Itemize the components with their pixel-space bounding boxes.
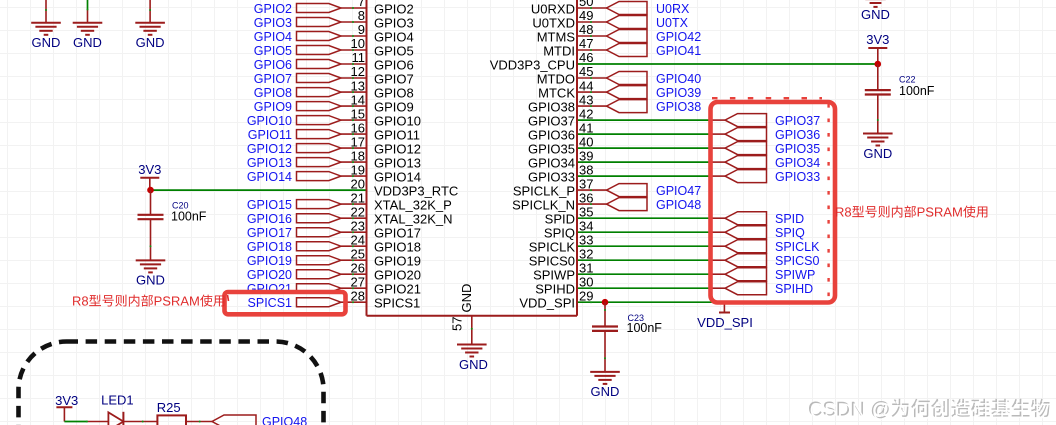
svg-text:100nF: 100nF [171,210,207,224]
svg-text:U0RX: U0RX [656,2,690,16]
svg-text:9: 9 [358,22,365,37]
svg-text:46: 46 [579,50,593,65]
svg-text:SPICS1: SPICS1 [248,296,293,310]
svg-text:3V3: 3V3 [138,162,161,177]
svg-text:SPIWP: SPIWP [533,268,575,283]
svg-text:29: 29 [579,288,593,303]
svg-text:20: 20 [351,176,365,191]
svg-text:SPICLK: SPICLK [529,240,576,255]
svg-text:GPIO36: GPIO36 [528,128,575,143]
svg-text:27: 27 [351,274,365,289]
svg-text:17: 17 [351,134,365,149]
svg-text:GPIO6: GPIO6 [254,58,292,72]
svg-text:GPIO3: GPIO3 [374,16,414,31]
svg-text:23: 23 [351,218,365,233]
svg-text:VDD3P3_CPU: VDD3P3_CPU [490,58,575,73]
svg-text:SPICLK: SPICLK [775,240,820,254]
svg-text:47: 47 [579,36,593,51]
svg-text:GPIO38: GPIO38 [528,100,575,115]
svg-text:GPIO2: GPIO2 [254,2,292,16]
svg-text:GPIO18: GPIO18 [247,240,292,254]
svg-text:GPIO37: GPIO37 [528,114,575,129]
svg-text:SPICS1: SPICS1 [374,296,420,311]
svg-text:GPIO19: GPIO19 [374,254,421,269]
svg-text:GPIO12: GPIO12 [247,142,292,156]
svg-text:GND: GND [136,273,165,288]
svg-text:100nF: 100nF [899,84,935,98]
svg-text:U0RXD: U0RXD [531,2,575,17]
svg-text:GPIO14: GPIO14 [374,170,421,185]
svg-text:GND: GND [459,284,474,313]
svg-text:100nF: 100nF [627,321,663,335]
svg-text:GPIO18: GPIO18 [374,240,421,255]
svg-text:GPIO14: GPIO14 [247,170,292,184]
svg-text:45: 45 [579,64,593,79]
svg-text:SPICS0: SPICS0 [775,254,820,268]
svg-text:GND: GND [32,35,61,50]
svg-text:GPIO8: GPIO8 [374,86,414,101]
svg-text:MTCK: MTCK [538,86,575,101]
svg-text:GPIO21: GPIO21 [374,282,421,297]
svg-text:GPIO47: GPIO47 [656,184,701,198]
svg-text:44: 44 [579,78,593,93]
svg-text:24: 24 [351,232,365,247]
svg-text:GPIO17: GPIO17 [247,226,292,240]
svg-text:33: 33 [579,232,593,247]
svg-text:GPIO33: GPIO33 [775,170,820,184]
svg-text:GPIO34: GPIO34 [528,156,575,171]
svg-text:GPIO10: GPIO10 [247,114,292,128]
svg-text:3V3: 3V3 [866,32,889,47]
svg-text:XTAL_32K_P: XTAL_32K_P [374,198,452,213]
svg-text:43: 43 [579,92,593,107]
svg-text:GPIO17: GPIO17 [374,226,421,241]
svg-text:30: 30 [579,274,593,289]
svg-text:19: 19 [351,162,365,177]
svg-text:GPIO2: GPIO2 [374,2,414,17]
svg-text:U0TXD: U0TXD [532,16,575,31]
svg-text:GPIO15: GPIO15 [247,198,292,212]
svg-text:16: 16 [351,120,365,135]
svg-text:C22: C22 [899,75,916,85]
svg-text:VDD3P3_RTC: VDD3P3_RTC [374,184,458,199]
svg-text:14: 14 [351,92,365,107]
svg-text:GPIO7: GPIO7 [374,72,414,87]
svg-text:GPIO42: GPIO42 [656,30,701,44]
svg-text:GND: GND [861,7,890,22]
svg-text:GPIO11: GPIO11 [374,128,420,143]
svg-text:GPIO19: GPIO19 [247,254,292,268]
svg-text:15: 15 [351,106,365,121]
svg-text:GPIO8: GPIO8 [254,86,292,100]
svg-text:GND: GND [73,35,102,50]
svg-text:SPID: SPID [775,212,804,226]
svg-text:42: 42 [579,106,593,121]
svg-text:39: 39 [579,148,593,163]
svg-text:GPIO9: GPIO9 [254,100,292,114]
svg-text:21: 21 [351,190,365,205]
svg-text:GPIO11: GPIO11 [248,128,292,142]
svg-text:GND: GND [591,384,620,399]
svg-text:SPICLK_P: SPICLK_P [513,184,575,199]
svg-text:SPIHD: SPIHD [775,282,813,296]
svg-text:GPIO20: GPIO20 [374,268,421,283]
svg-text:GPIO6: GPIO6 [374,58,414,73]
svg-text:36: 36 [579,190,593,205]
svg-text:MTDI: MTDI [543,44,575,59]
svg-text:GPIO40: GPIO40 [656,72,701,86]
svg-text:SPICLK_N: SPICLK_N [512,198,575,213]
svg-text:13: 13 [351,78,365,93]
svg-text:LED1: LED1 [101,393,134,408]
svg-text:GPIO16: GPIO16 [247,212,292,226]
svg-text:SPIQ: SPIQ [775,226,805,240]
svg-text:SPIQ: SPIQ [544,226,575,241]
svg-text:GPIO13: GPIO13 [374,156,421,171]
svg-text:R25: R25 [157,400,181,415]
svg-text:41: 41 [579,120,593,135]
svg-text:32: 32 [579,246,593,261]
svg-text:GPIO35: GPIO35 [775,142,820,156]
svg-text:U0TX: U0TX [656,16,689,30]
svg-text:GPIO41: GPIO41 [656,44,701,58]
svg-text:22: 22 [351,204,365,219]
svg-text:11: 11 [352,50,366,65]
svg-text:37: 37 [579,176,593,191]
svg-text:GPIO3: GPIO3 [254,16,292,30]
svg-text:SPICS0: SPICS0 [529,254,575,269]
svg-text:GND: GND [136,35,165,50]
svg-text:GPIO39: GPIO39 [656,86,701,100]
svg-text:GPIO37: GPIO37 [775,114,820,128]
svg-text:26: 26 [351,260,365,275]
svg-text:GPIO35: GPIO35 [528,142,575,157]
svg-text:GPIO13: GPIO13 [247,156,292,170]
svg-text:GPIO20: GPIO20 [247,268,292,282]
svg-text:VDD_SPI: VDD_SPI [519,296,575,311]
svg-text:SPIWP: SPIWP [775,268,815,282]
svg-text:48: 48 [579,22,593,37]
svg-text:49: 49 [579,8,593,23]
svg-text:38: 38 [579,162,593,177]
svg-text:GPIO10: GPIO10 [374,114,421,129]
svg-text:GPIO34: GPIO34 [775,156,820,170]
svg-text:35: 35 [579,204,593,219]
svg-text:SPIHD: SPIHD [535,282,575,297]
svg-text:3V3: 3V3 [55,393,78,408]
svg-text:GPIO12: GPIO12 [374,142,421,157]
svg-text:GPIO48: GPIO48 [656,198,701,212]
svg-text:GND: GND [863,146,892,161]
svg-text:GPIO5: GPIO5 [254,44,292,58]
svg-text:MTDO: MTDO [537,72,575,87]
svg-text:12: 12 [351,64,365,79]
svg-text:GPIO5: GPIO5 [374,44,414,59]
svg-text:8: 8 [358,8,365,23]
svg-text:GPIO48: GPIO48 [262,415,307,425]
svg-text:GPIO38: GPIO38 [656,100,701,114]
svg-text:34: 34 [579,218,593,233]
svg-text:VDD_SPI: VDD_SPI [697,315,753,330]
svg-text:31: 31 [579,260,593,275]
svg-text:XTAL_32K_N: XTAL_32K_N [374,212,453,227]
svg-text:GPIO7: GPIO7 [254,72,292,86]
svg-text:GPIO4: GPIO4 [254,30,292,44]
svg-text:GPIO9: GPIO9 [374,100,414,115]
svg-text:25: 25 [351,246,365,261]
svg-text:GPIO33: GPIO33 [528,170,575,185]
svg-text:GPIO36: GPIO36 [775,128,820,142]
svg-text:SPID: SPID [545,212,575,227]
svg-text:10: 10 [351,36,365,51]
svg-text:28: 28 [351,288,365,303]
svg-text:GND: GND [459,357,488,372]
svg-text:GPIO4: GPIO4 [374,30,414,45]
svg-text:MTMS: MTMS [537,30,576,45]
svg-text:57: 57 [450,317,465,331]
svg-text:40: 40 [579,134,593,149]
svg-text:18: 18 [351,148,365,163]
